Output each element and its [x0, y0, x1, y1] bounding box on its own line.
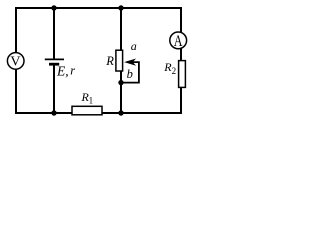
- wire battery branch upper: [53, 8, 55, 59]
- wire rheostat branch upper: [120, 8, 122, 51]
- svg-text:2: 2: [172, 66, 177, 76]
- wiper arrowhead: [126, 59, 135, 65]
- wire right: [180, 7, 182, 114]
- svg-text:a: a: [131, 39, 137, 53]
- svg-text:R: R: [105, 54, 114, 68]
- svg-text:A: A: [174, 33, 183, 51]
- svg-text:1: 1: [89, 96, 94, 106]
- battery E long plate: [45, 58, 64, 60]
- voltmeter V: [7, 53, 24, 70]
- wire rheostat branch lower: [120, 71, 122, 114]
- svg-text:r: r: [70, 64, 75, 78]
- svg-text:,: ,: [65, 63, 68, 78]
- wire wiper tail: [121, 62, 139, 83]
- resistor R1: [72, 106, 102, 115]
- wire battery branch lower: [53, 64, 55, 113]
- rheostat R body: [116, 50, 123, 71]
- node wiper junction: [118, 80, 123, 85]
- node rheostat top: [118, 5, 123, 10]
- svg-text:b: b: [127, 67, 133, 81]
- ammeter A: [170, 32, 187, 49]
- battery E short plate: [49, 63, 59, 66]
- node battery top: [51, 5, 56, 10]
- wire top: [15, 7, 182, 9]
- node battery bottom: [51, 110, 56, 115]
- wire left: [15, 7, 17, 114]
- resistor R2: [179, 61, 186, 88]
- node rheostat bottom: [118, 110, 123, 115]
- svg-text:V: V: [10, 55, 20, 70]
- wire bottom: [15, 112, 182, 114]
